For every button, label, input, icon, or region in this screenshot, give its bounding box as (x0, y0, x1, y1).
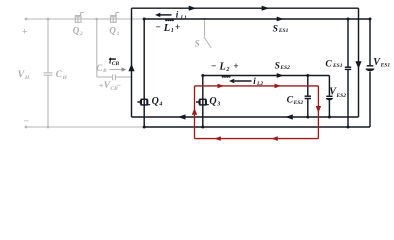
svg-text:−: − (116, 80, 121, 90)
svg-text:+: + (233, 62, 238, 72)
svg-text:H: H (24, 75, 30, 81)
svg-text:2: 2 (79, 31, 83, 37)
svg-text:1: 1 (117, 31, 120, 37)
svg-text:−: − (211, 62, 217, 72)
svg-text:2: 2 (225, 67, 229, 73)
svg-text:Q: Q (73, 26, 80, 36)
svg-text:4: 4 (158, 102, 162, 108)
svg-text:3: 3 (216, 102, 220, 108)
svg-text:CB: CB (112, 61, 120, 67)
svg-text:H: H (62, 75, 68, 81)
svg-text:+: + (175, 23, 180, 33)
svg-text:+: + (22, 27, 27, 37)
svg-text:Q: Q (109, 26, 116, 36)
svg-text:C: C (325, 60, 332, 70)
svg-text:ES2: ES2 (293, 100, 304, 106)
svg-text:Q: Q (209, 96, 216, 107)
svg-text:C: C (287, 96, 294, 106)
svg-text:S: S (275, 61, 280, 71)
svg-text:B: B (102, 68, 107, 74)
svg-text:ES1: ES1 (332, 63, 343, 69)
svg-text:ES2: ES2 (279, 65, 290, 71)
svg-text:ES1: ES1 (278, 28, 289, 34)
svg-text:−: − (155, 23, 161, 33)
svg-text:L1: L1 (180, 15, 187, 21)
svg-text:1: 1 (171, 28, 174, 34)
svg-text:−: − (24, 117, 30, 127)
svg-text:ES1: ES1 (380, 63, 391, 69)
svg-text:Q: Q (152, 96, 159, 107)
svg-text:ES2: ES2 (336, 93, 347, 99)
svg-text:L: L (163, 23, 170, 34)
svg-text:L2: L2 (256, 81, 263, 87)
svg-text:S: S (273, 24, 278, 34)
svg-text:S: S (195, 38, 200, 48)
svg-text:L: L (218, 61, 225, 72)
